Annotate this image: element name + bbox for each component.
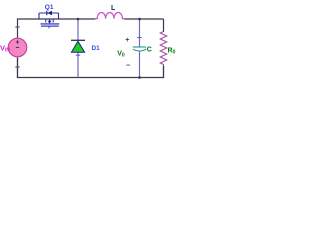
inductor L coil (95, 12, 125, 18)
resistor R0 zigzag (160, 32, 166, 67)
label C (147, 47, 152, 54)
wire capacitor bottom lead (139, 52, 141, 78)
label D1 (92, 45, 101, 52)
label Q1 (45, 4, 54, 11)
capacitor C plates (133, 47, 146, 51)
svg-text:R0: R0 (168, 48, 176, 56)
svg-text:Q1: Q1 (45, 4, 54, 11)
wire resistor top lead (163, 19, 165, 32)
diode D1 cathode bar (71, 39, 85, 41)
wire D1 anode lead (76, 53, 80, 78)
wire top rail (18, 19, 164, 38)
node junction at C bottom (138, 76, 141, 79)
svg-text:C: C (147, 47, 152, 54)
svg-text:V0: V0 (117, 51, 125, 59)
source VIN circle (8, 38, 27, 57)
svg-text:D1: D1 (92, 45, 101, 52)
label V0 polarity plus (125, 37, 129, 44)
svg-text:L: L (111, 5, 116, 12)
node junction at C top (138, 18, 141, 21)
label L (111, 5, 116, 12)
label R0 (168, 48, 176, 56)
diode D1 triangle (71, 41, 84, 52)
svg-text:−: − (126, 61, 131, 70)
label V0 (117, 51, 125, 59)
label V0 polarity minus (126, 61, 131, 70)
wire bottom rail (18, 58, 164, 78)
source VIN minus tick (15, 66, 19, 68)
mosfet Q1 body diode triangle (47, 11, 52, 16)
wire capacitor top lead (137, 19, 141, 47)
svg-text:+: + (125, 37, 129, 44)
mosfet Q1 channel and gate (41, 19, 60, 28)
label VIN (0, 44, 10, 54)
node junction at D1 top (77, 18, 80, 21)
mosfet Q1 body diode branch (39, 13, 59, 19)
wire D1 cathode lead (77, 19, 79, 41)
source VIN plus tick (15, 26, 19, 28)
